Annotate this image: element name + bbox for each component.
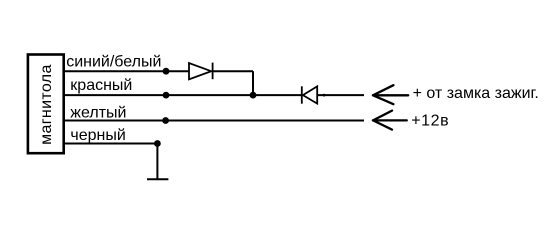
svg-text:черный: черный: [70, 127, 125, 144]
junction splice dot on red wire: [163, 92, 170, 99]
arrow connector 2 (to +12V): [373, 111, 407, 130]
svg-text:+12в: +12в: [411, 112, 449, 129]
junction splice dot on blue/white wire: [163, 68, 170, 75]
wire from D1 cathode to corner: [213, 70, 253, 72]
box магнитола (car stereo): [28, 55, 64, 154]
wire red (красный) from box to diode D2: [64, 94, 302, 96]
wire yellow (желтый) from box to arrow 2: [64, 120, 364, 122]
wire vertical down to ground: [156, 144, 158, 180]
svg-text:синий/белый: синий/белый: [66, 53, 161, 70]
junction splice dot on yellow wire: [162, 117, 169, 124]
wire black (черный) from box to ground drop: [64, 143, 158, 145]
junction dot at ground branch: [154, 140, 161, 147]
wire blue/white (синий/белый) from box to diode D1: [64, 70, 189, 72]
junction dot: D1 branch joins red wire: [250, 92, 257, 99]
ground (chassis) bar: [147, 178, 168, 180]
diode D1 (anode left, cathode right): [189, 63, 213, 80]
svg-text:красный: красный: [70, 77, 132, 94]
small node dot on wire after D2: [323, 94, 326, 97]
diode D2 (cathode left, anode right): [302, 86, 317, 103]
svg-text:желтый: желтый: [70, 105, 126, 122]
arrow connector 1 (to ignition lock): [373, 85, 408, 104]
svg-text:+ от замка зажиг.: + от замка зажиг.: [413, 85, 539, 102]
wire vertical down to red wire: [252, 71, 254, 95]
svg-text:магнитола: магнитола: [38, 64, 55, 145]
wire from D2 anode to arrow 1: [317, 94, 364, 96]
